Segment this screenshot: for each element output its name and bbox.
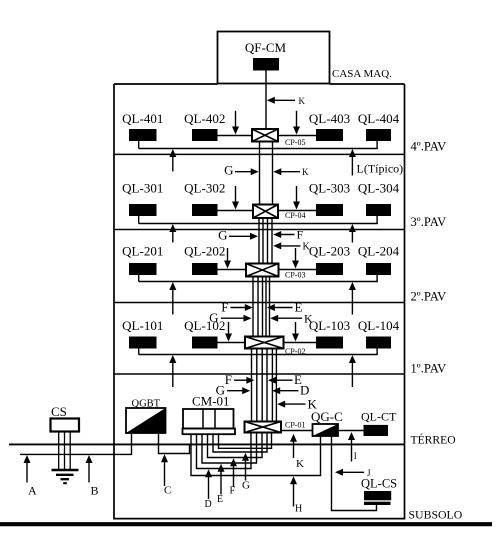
svg-text:QL-203: QL-203 — [309, 244, 350, 259]
riser duct CP-05 to CP-04 — [260, 142, 273, 205]
panel QL-204 — [366, 263, 391, 275]
wire drop QL-404 — [376, 141, 378, 149]
wire lower run QL-301 to QL-304 — [139, 223, 378, 225]
label QL-402 — [184, 111, 225, 126]
arrow K at machine room — [267, 96, 306, 106]
svg-text:G: G — [209, 310, 218, 325]
arrow branch circuit right floor 2 — [349, 282, 356, 315]
svg-text:QL-303: QL-303 — [309, 181, 350, 196]
terreo slab / service bus — [9, 443, 405, 445]
svg-text:CP-03: CP-03 — [285, 271, 305, 280]
arrow E floor1 run — [268, 372, 302, 387]
label QL-CT — [361, 410, 397, 424]
svg-text:QL-104: QL-104 — [358, 318, 400, 333]
wire QL-402 to CP-05 — [218, 135, 253, 137]
arrow D — [205, 469, 213, 510]
svg-text:QL-101: QL-101 — [122, 318, 163, 333]
svg-text:3º.PAV: 3º.PAV — [411, 215, 447, 229]
arrow A — [24, 455, 38, 497]
panel QL-CS — [364, 491, 391, 505]
arrow K floor3 run — [273, 242, 310, 253]
label 2º.PAV — [411, 290, 447, 304]
svg-text:K: K — [304, 312, 313, 326]
panel QL-404 — [366, 129, 391, 141]
arrow K floor1 run — [277, 396, 317, 411]
ground slab rule — [0, 522, 492, 526]
arrow branch circuit left floor 1 — [169, 355, 176, 387]
label QL-102 — [184, 318, 225, 333]
arrow drop right floor 2 — [292, 248, 299, 269]
arrow drop right floor 4 — [293, 111, 300, 135]
wire CP-03 to QL-203 — [279, 269, 317, 271]
panel QF-CM — [253, 58, 279, 71]
wire CP-05 to QL-403 — [278, 135, 316, 137]
wire riser K to QF-CM — [265, 71, 267, 130]
arrow F floor2 run — [221, 299, 253, 314]
wire lower run QL-201 to QL-204 — [139, 281, 378, 283]
panel QG-C — [313, 424, 339, 436]
wire drop QL-104 — [376, 349, 378, 355]
wire feeder G CM-01 to CP-01 — [213, 433, 267, 453]
panel QGBT — [126, 408, 166, 433]
svg-text:B: B — [91, 483, 99, 497]
panel QL-CT — [364, 425, 389, 436]
label TÉRREO — [411, 433, 456, 447]
3rd-floor slab — [114, 229, 405, 231]
label QL-201 — [122, 244, 163, 259]
wire QG-C to QL-CT — [338, 430, 364, 432]
svg-text:1º.PAV: 1º.PAV — [411, 362, 447, 376]
arrow G floor4 run — [224, 163, 259, 178]
wire feeder H CM-01 to QG-C — [191, 434, 321, 475]
arrow drop left floor 1 — [225, 322, 232, 342]
label SUBSOLO — [409, 508, 463, 522]
svg-text:G: G — [218, 228, 227, 243]
arrow K floor4 run — [273, 167, 309, 177]
label QL-CS — [361, 477, 397, 491]
wire drop QL-401 — [138, 141, 140, 149]
svg-text:QF-CM: QF-CM — [245, 40, 287, 55]
meter bank CM-01 — [183, 409, 236, 434]
arrow G — [242, 453, 250, 492]
label QL-401 — [122, 111, 163, 126]
arrow G floor3 run — [218, 228, 258, 243]
wire CP-01 to QG-C — [281, 430, 313, 432]
svg-text:L(Típico): L(Típico) — [357, 162, 404, 176]
svg-text:F: F — [225, 372, 232, 387]
2nd-floor slab — [114, 302, 405, 304]
arrow drop left floor 3 — [232, 186, 239, 210]
svg-text:E: E — [295, 300, 303, 315]
panel QL-301 — [129, 204, 157, 216]
arrow B — [86, 455, 99, 497]
wire drop QL-201 — [138, 275, 140, 282]
arrow K at CP-01 — [290, 434, 304, 470]
machine-room box (CASA MAQ.) — [218, 32, 330, 84]
svg-text:C: C — [164, 484, 171, 496]
wire QG-C to QL-CS — [332, 436, 377, 511]
panel QL-203 — [316, 263, 343, 275]
label QL-301 — [122, 181, 163, 196]
wire CP-04 to QL-303 — [278, 210, 316, 212]
svg-text:G: G — [242, 480, 250, 492]
arrow D floor1 run — [272, 383, 309, 398]
panel QL-102 — [192, 337, 218, 349]
panel QL-101 — [129, 337, 157, 349]
svg-text:QL-404: QL-404 — [358, 111, 400, 126]
svg-text:QG-C: QG-C — [311, 409, 343, 424]
label QF-CM — [245, 40, 287, 55]
wire feeder D CM-01 to CP-01 — [197, 433, 252, 469]
wire lower run QL-101 to QL-104 — [139, 354, 378, 356]
svg-text:QL-304: QL-304 — [358, 181, 400, 196]
panel QL-302 — [192, 204, 218, 216]
arrow branch circuit right floor 3 — [349, 224, 356, 243]
ground — [52, 470, 79, 483]
wire CP-02 to QL-103 — [284, 342, 317, 344]
label QL-404 — [358, 111, 400, 126]
arrow K floor2 run — [270, 312, 313, 326]
svg-text:CP-04: CP-04 — [285, 211, 305, 220]
svg-text:A: A — [28, 483, 37, 497]
svg-text:CP-05: CP-05 — [285, 138, 305, 147]
svg-text:F: F — [230, 486, 236, 497]
label CS — [51, 404, 67, 419]
svg-text:TÉRREO: TÉRREO — [411, 433, 456, 447]
svg-text:4º.PAV: 4º.PAV — [411, 140, 447, 154]
label QL-303 — [309, 181, 350, 196]
arrow drop right floor 1 — [292, 322, 299, 342]
svg-text:K: K — [303, 242, 311, 253]
label QL-204 — [358, 244, 400, 259]
riser duct CP-04 to CP-03 — [259, 218, 272, 264]
svg-text:CM-01: CM-01 — [192, 394, 230, 409]
wire drop QL-301 — [138, 216, 140, 224]
svg-text:CP-01: CP-01 — [285, 421, 305, 430]
wire QGBT to bus — [132, 433, 159, 444]
label CP-03 — [285, 271, 305, 280]
label QL-403 — [309, 111, 350, 126]
junction box CP-04 — [253, 205, 278, 219]
svg-text:QL-402: QL-402 — [184, 111, 225, 126]
wire feeder E CM-01 to CP-01 — [202, 433, 257, 464]
arrow branch circuit left floor 3 — [169, 224, 176, 243]
arrow F floor1 run — [225, 372, 255, 387]
label QL-203 — [309, 244, 350, 259]
arrow drop right floor 3 — [293, 186, 300, 210]
svg-text:QL-204: QL-204 — [358, 244, 400, 259]
svg-text:K: K — [296, 458, 304, 470]
label CP-01 — [285, 421, 305, 430]
arrow E floor2 run — [267, 300, 303, 315]
svg-text:2º.PAV: 2º.PAV — [411, 290, 447, 304]
svg-text:QL-102: QL-102 — [184, 318, 225, 333]
panel QL-401 — [129, 129, 157, 141]
svg-text:I: I — [354, 451, 357, 461]
wire feeder F CM-01 to CP-01 — [208, 433, 263, 458]
label QL-304 — [358, 181, 400, 196]
panel QL-202 — [192, 263, 218, 275]
panel QL-303 — [316, 204, 343, 216]
label QL-302 — [184, 181, 225, 196]
label QL-103 — [309, 318, 350, 333]
svg-text:QL-202: QL-202 — [184, 244, 225, 259]
svg-text:D: D — [205, 499, 212, 510]
junction box CP-05 — [252, 129, 278, 142]
svg-text:E: E — [217, 494, 223, 505]
svg-text:QL-201: QL-201 — [122, 244, 163, 259]
svg-text:CASA MAQ.: CASA MAQ. — [332, 68, 392, 80]
riser duct CP-02 to CP-01 — [252, 349, 277, 422]
label CASA MAQ. — [332, 68, 392, 80]
junction box CP-03 — [246, 264, 279, 277]
label 4º.PAV — [411, 140, 447, 154]
arrow branch circuit right floor 1 — [349, 355, 356, 387]
arrow E — [217, 464, 225, 505]
wire feeder C under floor — [159, 444, 190, 453]
label QGBT — [132, 399, 161, 410]
arrow drop left floor 4 — [232, 111, 239, 135]
arrow C — [161, 454, 171, 496]
panel QL-104 — [366, 337, 391, 349]
riser duct CP-03 to CP-02 — [253, 277, 270, 337]
arrow F — [230, 458, 238, 497]
wire QL-302 to CP-04 — [218, 210, 254, 212]
wire CS to earth — [59, 432, 70, 470]
panel QL-402 — [192, 129, 218, 141]
wire drop QL-204 — [376, 275, 378, 282]
label QL-101 — [122, 318, 163, 333]
wire QL-102 to CP-02 — [218, 342, 246, 344]
label CP-02 — [285, 347, 305, 356]
svg-text:QL-401: QL-401 — [122, 111, 163, 126]
svg-text:QL-302: QL-302 — [184, 181, 225, 196]
label QL-104 — [358, 318, 400, 333]
label 3º.PAV — [411, 215, 447, 229]
arrow branch circuit left floor 2 — [169, 282, 176, 315]
arrow F floor3 run — [273, 227, 303, 241]
arrow branch circuit left floor 4 — [169, 149, 176, 171]
svg-text:SUBSOLO: SUBSOLO — [409, 508, 463, 522]
svg-text:H: H — [295, 504, 302, 515]
panel QL-304 — [366, 204, 391, 216]
arrow H — [290, 476, 302, 514]
label CP-04 — [285, 211, 305, 220]
arrow G floor2 run — [209, 310, 251, 325]
wire feeder K CM-01 to CP-01 — [219, 433, 272, 449]
svg-text:CS: CS — [51, 404, 67, 419]
building outline — [114, 84, 405, 519]
arrow drop left floor 2 — [224, 248, 231, 269]
4th-floor slab — [114, 153, 405, 155]
label QL-202 — [184, 244, 225, 259]
wire drop QL-101 — [138, 349, 140, 355]
1st-floor slab — [114, 373, 405, 375]
wire drop QL-304 — [376, 216, 378, 224]
arrow L(Típico) — [349, 149, 403, 176]
svg-text:QL-103: QL-103 — [309, 318, 350, 333]
label 1º.PAV — [411, 362, 447, 376]
panel QL-201 — [129, 263, 157, 275]
label CP-05 — [285, 138, 305, 147]
junction box CP-02 — [245, 337, 284, 349]
service box CS — [51, 419, 80, 432]
svg-text:K: K — [302, 167, 309, 177]
svg-text:QL-CT: QL-CT — [361, 410, 397, 424]
junction box CP-01 — [245, 422, 282, 433]
svg-text:K: K — [299, 96, 306, 106]
wire lower run QL-401 to QL-404 — [139, 148, 378, 150]
arrow J — [335, 468, 371, 478]
svg-text:QL-301: QL-301 — [122, 181, 163, 196]
svg-text:G: G — [224, 163, 233, 178]
arrow I — [348, 432, 357, 462]
svg-text:QL-403: QL-403 — [309, 111, 350, 126]
arrow G floor1 run — [216, 383, 251, 398]
panel QL-103 — [316, 337, 343, 349]
svg-text:F: F — [297, 227, 304, 241]
wire service entrance lateral — [20, 444, 132, 454]
wire QL-202 to CP-03 — [218, 269, 247, 271]
svg-text:F: F — [221, 299, 228, 314]
svg-text:QL-CS: QL-CS — [361, 477, 397, 491]
label CM-01 — [192, 394, 230, 409]
label QG-C — [311, 409, 343, 424]
panel QL-403 — [316, 129, 343, 141]
